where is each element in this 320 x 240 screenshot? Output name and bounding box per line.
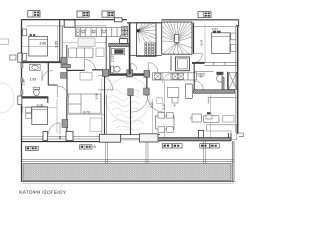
dim line x164.6 xyxy=(164,81,166,140)
hatched column hall 2 xyxy=(127,70,133,77)
bath inner wall x47.5 xyxy=(48,71,57,86)
kitchen tile X squares xyxy=(121,26,128,40)
living bottom thin line xyxy=(105,134,161,136)
top outer wall right section xyxy=(162,20,239,27)
pillow marks bed1 xyxy=(30,34,32,36)
entry door arc hall big xyxy=(98,75,113,90)
wall hatch chunk f xyxy=(61,73,67,79)
bedroom door arc xyxy=(194,54,203,63)
small rect below wardrobe xyxy=(90,118,102,131)
bedroom1 bottom wall xyxy=(22,61,63,63)
dim line vertical bedroom2 xyxy=(56,99,58,133)
level box 3 xyxy=(102,11,114,17)
footing column 2 xyxy=(139,134,158,142)
bottom pier 2 xyxy=(66,132,73,141)
wc right wall xyxy=(129,23,131,74)
hall door arc a xyxy=(85,59,96,70)
fridge xyxy=(186,84,193,99)
kitchen-hall wall x66 xyxy=(66,45,68,71)
stair2 newel rect xyxy=(175,35,179,43)
bottom window lines left xyxy=(22,136,100,139)
dim line x152.7 xyxy=(152,99,154,140)
stair1 pivot dark mark xyxy=(137,29,140,32)
bath bottom wall xyxy=(22,96,49,98)
wc hatched top wall xyxy=(109,43,131,46)
hallway right wall x67 xyxy=(66,70,68,97)
svg-text:3.60: 3.60 xyxy=(39,41,46,45)
terrace top line xyxy=(22,160,234,162)
wall hatch chunk d xyxy=(61,57,67,63)
svg-text:3.08: 3.08 xyxy=(94,93,98,99)
bath sink xyxy=(30,64,40,70)
bathroom bottom wall hatched xyxy=(194,90,235,93)
dim line vertical x205 xyxy=(204,25,206,64)
hatched column hall 1 xyxy=(102,70,108,77)
dim line kitchen xyxy=(63,42,106,44)
level box bottom 4 pair xyxy=(200,144,219,148)
bottom-right outside step xyxy=(239,133,243,137)
L cabinet low xyxy=(207,125,237,140)
level box bottom 2 xyxy=(80,145,93,149)
nightstand bed3 xyxy=(231,33,236,40)
bedroom2 entry arc bottom xyxy=(49,123,61,135)
hall bottom wall short xyxy=(67,69,85,71)
dim line horizontal bedroom2 xyxy=(23,107,58,109)
level box bottom 3 pair xyxy=(162,144,182,148)
wardrobe tall xyxy=(68,94,101,113)
kitchen island box A xyxy=(167,88,179,98)
dark mark above desk xyxy=(207,112,210,114)
left wall outside box xyxy=(10,55,16,60)
level box 1 xyxy=(28,11,40,17)
bath toilet xyxy=(33,87,40,96)
svg-text:3.04: 3.04 xyxy=(199,39,203,45)
glass doors living front xyxy=(105,138,159,140)
bathroom door arc right xyxy=(195,81,204,90)
bottom-right corner step xyxy=(229,133,231,141)
side table right of sofa xyxy=(96,48,104,57)
sofa xyxy=(69,48,94,58)
counter row right xyxy=(153,73,197,80)
left wall hatch chunk a xyxy=(20,63,23,69)
left wall niche upper xyxy=(23,29,27,36)
kitchen table xyxy=(78,38,95,47)
wall hatch chunk e xyxy=(61,64,71,67)
chair bl xyxy=(158,127,165,133)
elevator shaft xyxy=(175,57,189,71)
entry door arc stairhall xyxy=(148,63,158,73)
wc bump above xyxy=(120,39,128,44)
hatched column bed2 xyxy=(62,120,68,128)
kitchen island box B xyxy=(172,97,178,103)
chimney bump on top wall xyxy=(64,20,75,27)
terrace left edge xyxy=(21,142,23,182)
left wall niche lower xyxy=(23,53,27,60)
stair1 tread grid xyxy=(145,43,156,56)
svg-text:2.40: 2.40 xyxy=(20,106,24,112)
bottom mullion tick xyxy=(59,136,61,139)
pier on right band xyxy=(198,130,203,137)
terrace bottom line xyxy=(22,181,235,183)
svg-text:3.73: 3.73 xyxy=(83,110,90,114)
terrace right edge xyxy=(232,141,234,182)
svg-text:ΚΑΤΟΨΗ ΙΣΟΓΕΙΟΥ: ΚΑΤΟΨΗ ΙΣΟΓΕΙΟΥ xyxy=(19,190,66,195)
burner circles xyxy=(76,29,79,36)
bedroom2 door arc xyxy=(57,86,68,97)
stair1 fan lines xyxy=(138,23,156,42)
chair tr xyxy=(167,113,174,119)
nightstand b xyxy=(26,113,32,118)
bedroom left wall xyxy=(193,23,195,54)
bathroom top wall xyxy=(195,71,214,73)
wc sink unit xyxy=(112,48,125,55)
wc toilet xyxy=(111,66,120,72)
svg-text:1.90: 1.90 xyxy=(22,79,26,85)
bed B3 xyxy=(212,33,230,54)
dining table xyxy=(156,116,175,129)
living double door arc leaf B xyxy=(148,96,164,112)
bottom pier 1 xyxy=(43,132,48,141)
svg-text:5.20: 5.20 xyxy=(149,101,153,107)
bath door arc xyxy=(42,71,52,81)
hatched column living xyxy=(144,88,150,95)
footing column 1 xyxy=(100,134,121,142)
hatched column living top xyxy=(128,89,133,96)
living left wall w/ hatch column xyxy=(146,77,148,96)
left wall hatch chunk c xyxy=(20,90,23,96)
nightstand a xyxy=(26,107,32,113)
left wall pilaster a xyxy=(18,53,22,62)
hatched column hall 3 xyxy=(144,71,150,78)
counter X squares pair xyxy=(173,74,184,80)
top wall middle stair section xyxy=(127,22,162,24)
top outer wall left section xyxy=(22,20,128,26)
svg-text:2.61: 2.61 xyxy=(212,27,218,31)
svg-text:1.93: 1.93 xyxy=(30,77,37,81)
wall stub x129.5 living xyxy=(130,96,132,135)
svg-text:3.65: 3.65 xyxy=(54,41,58,48)
toilet right: tank xyxy=(216,72,223,75)
bed B2 xyxy=(32,107,48,125)
kitchen right wall xyxy=(105,37,107,74)
watermark partial circle left edge xyxy=(0,83,14,113)
hall bottom wall band xyxy=(106,73,149,75)
dim line horizontal bedroom1 xyxy=(23,46,60,48)
wc door arc xyxy=(131,64,137,70)
wc left wall xyxy=(109,47,111,73)
svg-text:5.20: 5.20 xyxy=(161,103,165,109)
bedroom bottom wall xyxy=(192,62,205,64)
dim line vertical x57.5 xyxy=(57,26,59,61)
bed B1 xyxy=(29,36,48,56)
terrace hatch xyxy=(23,163,231,180)
chair br xyxy=(167,127,174,133)
level box 2 xyxy=(77,11,89,17)
counter X square 1 xyxy=(155,74,161,80)
bath sink semicircle xyxy=(197,74,204,77)
dim line horizontal 373 xyxy=(68,114,105,116)
hall-elevator wall xyxy=(170,56,172,71)
level box 4 xyxy=(198,12,211,18)
chair tl xyxy=(158,113,165,119)
svg-text:2.12: 2.12 xyxy=(111,55,115,62)
left wall pilaster b xyxy=(18,96,22,104)
left outer wall xyxy=(21,20,23,142)
level box bottom 1 xyxy=(25,146,38,150)
hall wall mid segment xyxy=(92,69,102,71)
stair hall bottom line xyxy=(130,55,162,57)
island plus mark xyxy=(173,104,175,106)
bathroom plumbing wall hatch xyxy=(222,77,224,90)
tiny box above desk xyxy=(206,115,212,119)
left wall hatch chunk b xyxy=(20,78,23,84)
desk box left xyxy=(192,114,201,122)
bedroom2 right wall xyxy=(66,97,68,134)
svg-text:~~~~~~~~~: ~~~~~~~~~ xyxy=(117,127,132,131)
bathroom left wall xyxy=(193,64,195,92)
left margin step lines xyxy=(0,39,9,44)
terrace posts xyxy=(106,141,206,164)
desk rounded xyxy=(204,116,220,123)
shower tray xyxy=(229,72,237,89)
bathroom partition wall xyxy=(227,72,229,90)
dim line x210.7 xyxy=(210,95,212,140)
left living wall x104.5 xyxy=(104,76,106,134)
stair2 fan lines xyxy=(162,22,192,54)
small table hall xyxy=(80,73,92,81)
bottom wall right band xyxy=(158,138,231,141)
bath right wall xyxy=(47,62,49,70)
island small rect left xyxy=(157,98,162,103)
kitchen counter top row xyxy=(75,28,127,37)
watermark seal circle xyxy=(106,78,150,131)
living double door arc leaf A xyxy=(132,96,148,112)
bottom wall line left xyxy=(22,141,100,143)
bedroom1 right wall double xyxy=(60,20,63,63)
toilet right: bowl xyxy=(217,75,223,83)
cabinet right xyxy=(223,116,235,122)
nightstand bed3 top xyxy=(231,45,236,52)
bedroom bottom window lines xyxy=(205,62,238,65)
kitchen door arc small xyxy=(163,74,173,84)
pillow marks bed3 xyxy=(213,31,216,33)
dim line vertical x101.8 xyxy=(101,78,103,134)
bedroom2 wall stub xyxy=(47,97,49,103)
right outer wall xyxy=(236,26,238,134)
living top line right xyxy=(208,97,237,99)
small bump top wall 2 xyxy=(115,18,123,22)
